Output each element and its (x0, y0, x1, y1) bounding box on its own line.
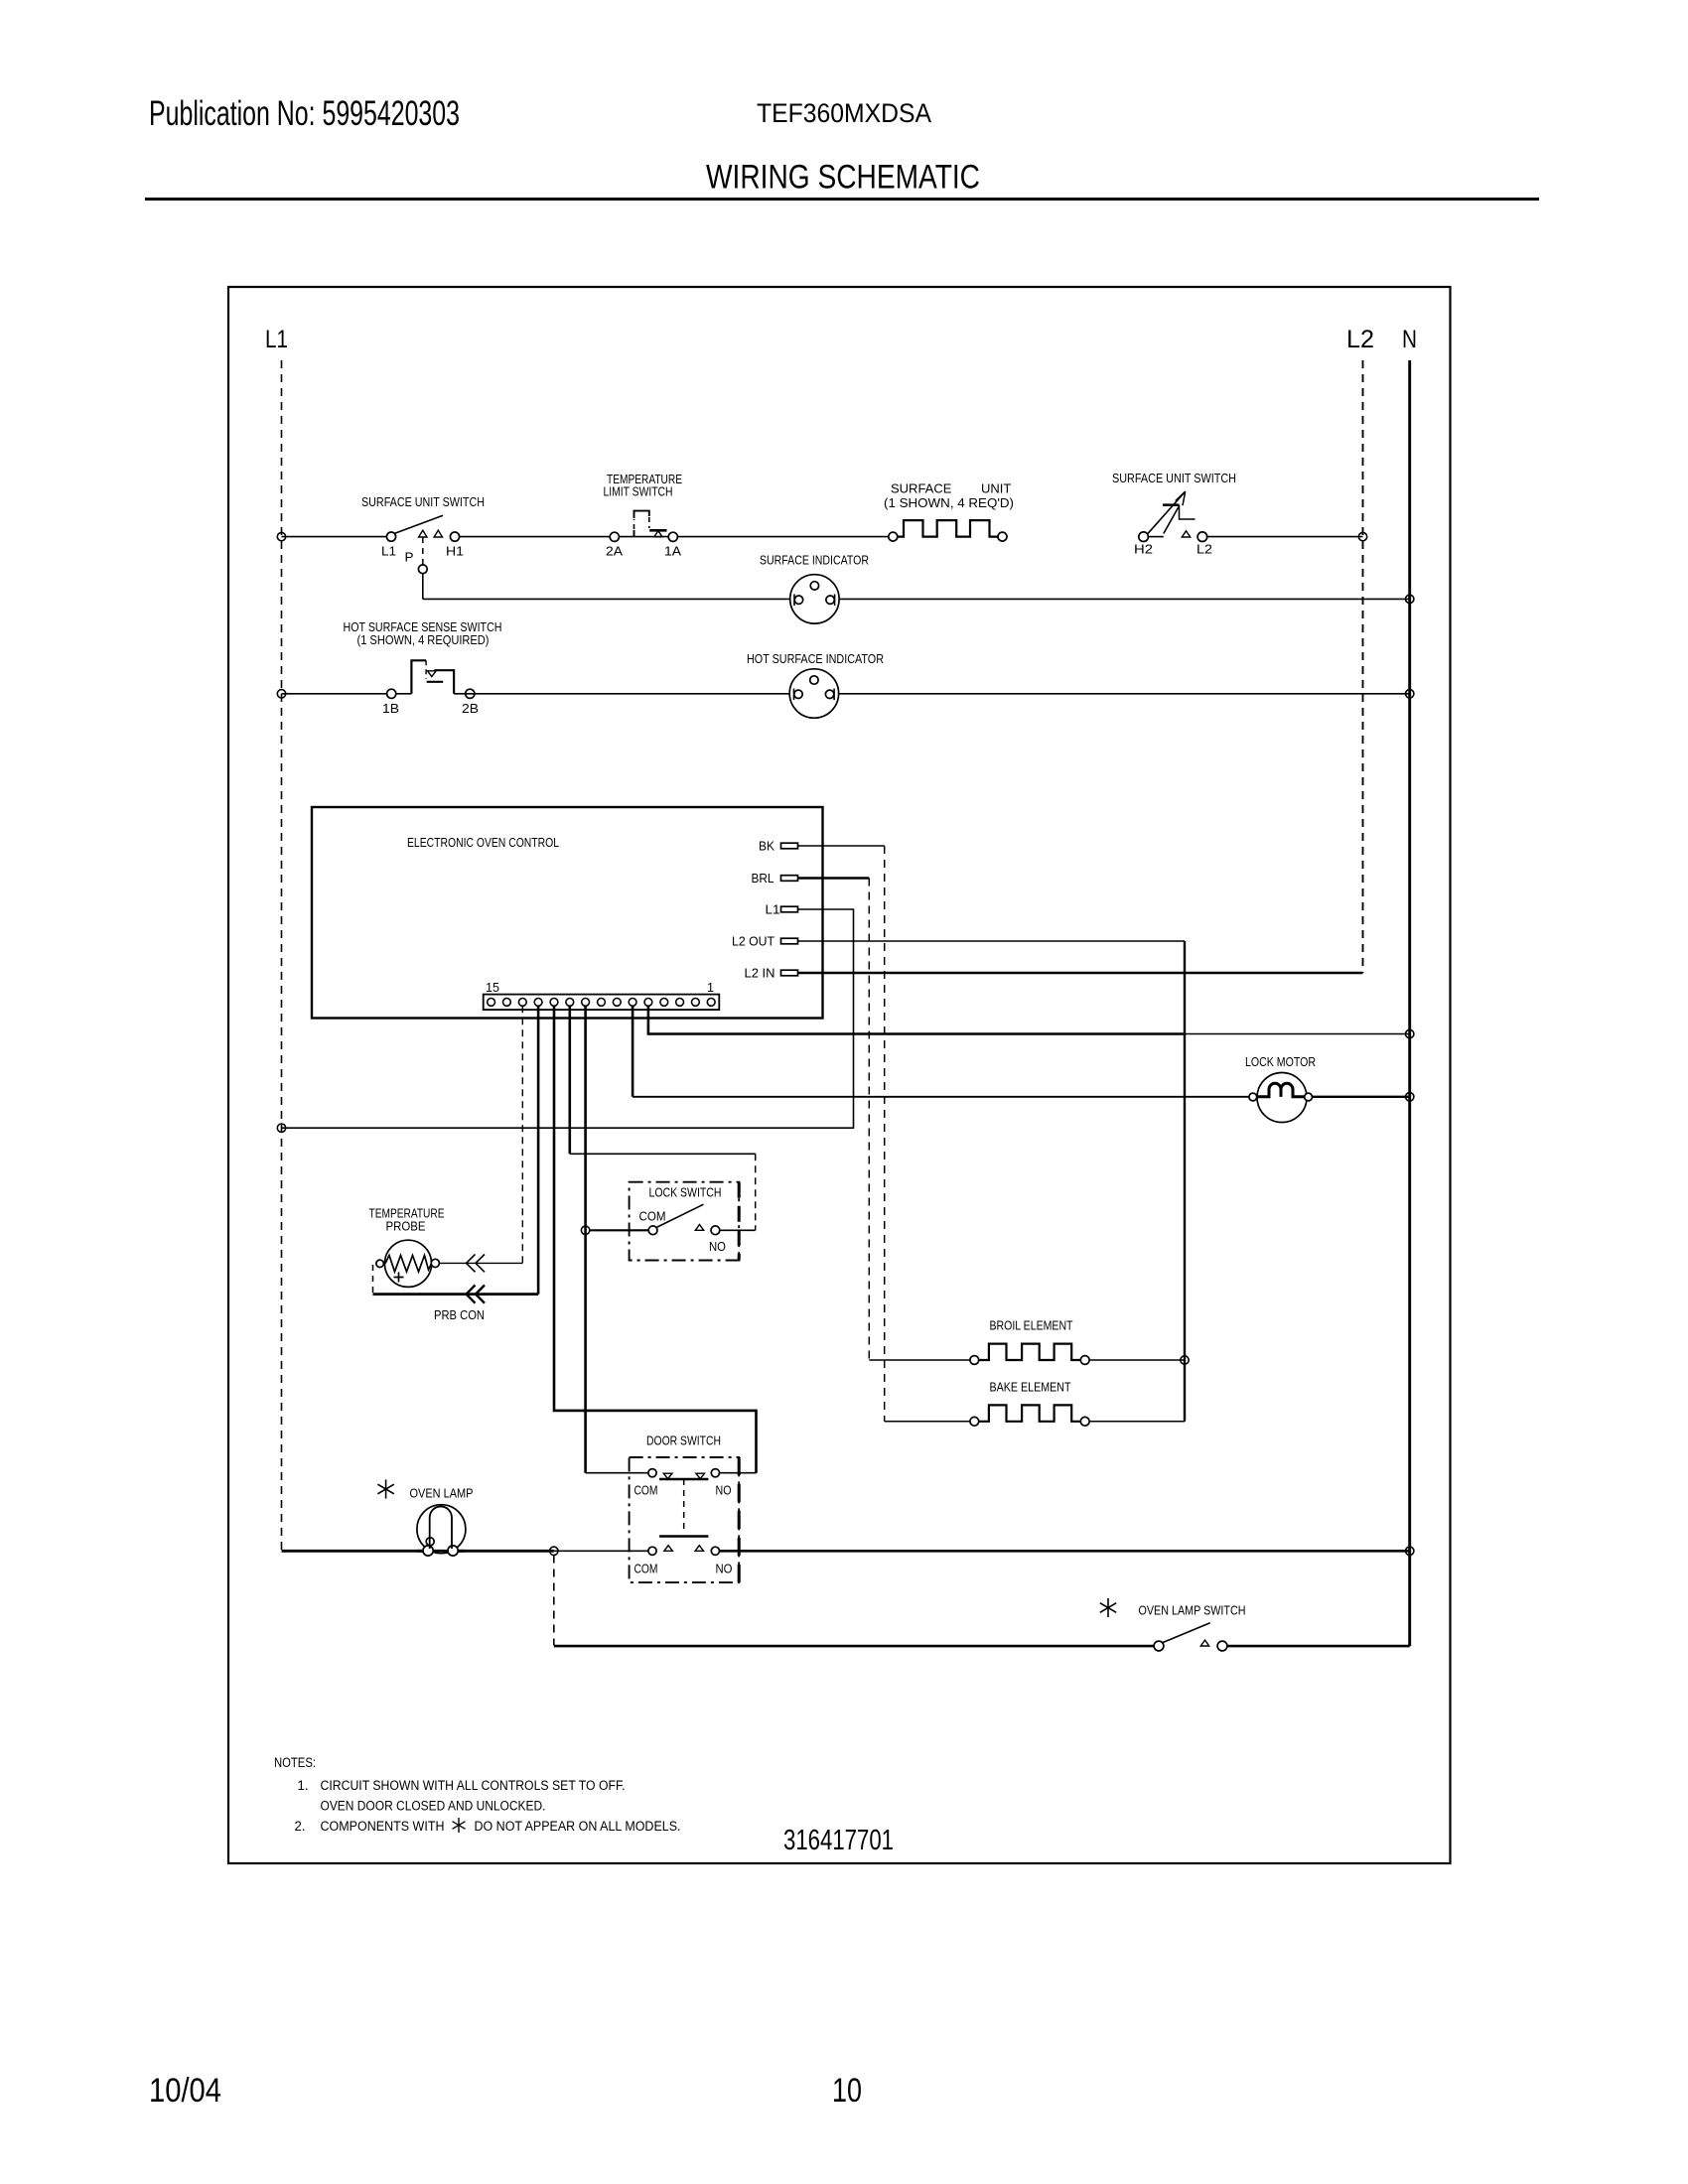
door switch S5 upper COM terminal (648, 1469, 656, 1477)
svg-text:1A: 1A (664, 544, 681, 559)
wire row2 left segment (282, 693, 412, 695)
wire terminal 6 (568, 1006, 571, 1154)
PRB CON chevrons (467, 1286, 486, 1303)
lock motor M1 terminals (1249, 1093, 1257, 1101)
oven lamp DS3 body (417, 1505, 466, 1554)
wire door upper row right (720, 1472, 757, 1474)
wire P to indicator row (422, 574, 424, 600)
svg-text:OVEN DOOR CLOSED AND UNLOCKED.: OVEN DOOR CLOSED AND UNLOCKED. (321, 1799, 546, 1814)
oven lamp DS3 filament (430, 1506, 452, 1549)
broil element R2 right terminal (1080, 1356, 1089, 1365)
schematic border frame (228, 287, 1451, 1863)
limit switch TL1 contact bar (649, 529, 666, 532)
resistor R3 element (979, 1405, 1081, 1421)
wire terminal 11 (648, 1006, 1185, 1033)
door switch S5 upper NO terminal (711, 1469, 719, 1477)
svg-text:L2: L2 (1196, 542, 1212, 557)
svg-text:1B: 1B (382, 701, 399, 716)
svg-text:L2: L2 (1346, 326, 1374, 353)
bake element R3 right terminal (1080, 1417, 1089, 1426)
svg-text:Publication No: 5995420303: Publication No: 5995420303 (149, 94, 460, 133)
wire broil row right (1089, 1359, 1185, 1361)
wire terminal 5 (554, 1006, 757, 1472)
door switch S5 upper bar (659, 1478, 708, 1480)
svg-text:DOOR SWITCH: DOOR SWITCH (646, 1433, 721, 1448)
svg-text:COM: COM (634, 1562, 658, 1576)
door switch S5 lower NO terminal (711, 1547, 719, 1555)
wire row 1041 right (1185, 1033, 1410, 1035)
svg-text:H1: H1 (446, 544, 464, 559)
svg-text:BK: BK (759, 839, 774, 854)
wire lamp row to door COM (554, 1550, 648, 1552)
svg-text:TEF360MXDSA: TEF360MXDSA (757, 98, 931, 128)
svg-text:NO: NO (716, 1562, 733, 1576)
wire door upper row left (586, 1472, 648, 1474)
svg-text:ELECTRONIC OVEN CONTROL: ELECTRONIC OVEN CONTROL (407, 835, 559, 850)
svg-text:L1: L1 (766, 902, 780, 917)
wire row1 left segment (282, 536, 388, 538)
junction row2 x N rail (1406, 690, 1414, 698)
svg-text:BRL: BRL (752, 871, 774, 886)
wire row1 right segment (1207, 536, 1363, 538)
switch S2 L bracket (1180, 505, 1196, 519)
wire broil row left (869, 1359, 970, 1361)
wire lamp row thick left (282, 1550, 554, 1553)
oven lamp switch asterisk (1100, 1598, 1116, 1617)
terminal strip J1 (484, 995, 720, 1011)
wire pin L2 IN (798, 972, 1363, 975)
svg-text:SURFACE INDICATOR: SURFACE INDICATOR (760, 553, 869, 568)
door switch S5 lower bar (659, 1535, 708, 1537)
wire N rail (1408, 360, 1411, 1646)
junction row2 x L1 rail (277, 690, 285, 698)
surface indicator DS1 body (790, 575, 839, 623)
oven lamp switch S6 blade (1163, 1623, 1210, 1643)
lock switch S4 contact triangle (695, 1225, 703, 1231)
surface unit R1 right terminal (998, 532, 1007, 541)
wire probe to terminal3 (439, 1262, 522, 1264)
door switch S5 upper contact triangles (663, 1473, 672, 1478)
lock motor M1 body (1257, 1073, 1307, 1123)
svg-text:1.: 1. (298, 1778, 309, 1793)
lock switch S4 blade (656, 1204, 704, 1227)
svg-text:DO NOT APPEAR ON ALL MODELS.: DO NOT APPEAR ON ALL MODELS. (475, 1819, 681, 1834)
svg-text:LIMIT SWITCH: LIMIT SWITCH (604, 484, 673, 499)
wire terminal 10 (632, 1006, 634, 1097)
svg-text:SURFACE UNIT: SURFACE UNIT (891, 481, 1011, 496)
wire lamp switch row right (1227, 1645, 1410, 1648)
oven lamp asterisk (377, 1480, 393, 1499)
junction motor row x N rail (1406, 1093, 1414, 1101)
svg-text:N: N (1402, 326, 1417, 353)
oven lamp switch S6 left terminal (1154, 1641, 1164, 1651)
svg-text:OVEN LAMP: OVEN LAMP (410, 1486, 474, 1501)
switch S2 bar (1163, 503, 1180, 506)
svg-text:PRB CON: PRB CON (434, 1307, 485, 1322)
svg-text:L2 IN: L2 IN (745, 966, 775, 981)
junction row1 x L2 rail (1358, 532, 1366, 540)
switch S1 blade (394, 515, 443, 533)
svg-text:NO: NO (709, 1239, 726, 1254)
probe connector chevrons (467, 1255, 486, 1273)
wire bake row right (1089, 1421, 1185, 1423)
wire probe left dashed drop (372, 1265, 374, 1295)
wire pin L2 OUT (798, 940, 1186, 942)
limit switch TL1 body (634, 511, 649, 537)
svg-text:(1 SHOWN, 4 REQ'D): (1 SHOWN, 4 REQ'D) (884, 495, 1014, 510)
svg-text:PROBE: PROBE (386, 1219, 426, 1234)
resistor R1 element (898, 520, 998, 537)
junction L1 pin wire x L1 rail (277, 1124, 285, 1132)
limit switch TL1 contact triangle (654, 531, 662, 537)
bake element R3 left terminal (970, 1417, 979, 1426)
svg-text:SURFACE UNIT SWITCH: SURFACE UNIT SWITCH (361, 494, 485, 509)
svg-text:LOCK SWITCH: LOCK SWITCH (649, 1185, 722, 1200)
svg-text:NO: NO (716, 1483, 732, 1498)
switch S1 terminal H1 (450, 532, 459, 541)
wire lamp switch dashed drop (553, 1556, 555, 1646)
switch S2 blade with arrow (1148, 491, 1186, 534)
oven lamp DS3 terminals (426, 1538, 434, 1546)
svg-text:10: 10 (832, 2072, 862, 2110)
lock switch S4 box (630, 1182, 740, 1261)
wire pin L1 (282, 909, 854, 1128)
wire terminal 3 (dashed) (521, 1006, 523, 1263)
junction indicator row x N rail (1406, 595, 1414, 603)
broil element R2 left terminal (970, 1356, 979, 1365)
junction row1 x L1 rail (277, 532, 285, 540)
svg-text:316417701: 316417701 (783, 1825, 894, 1856)
svg-text:15: 15 (486, 980, 499, 995)
wire lock motor row (633, 1096, 1250, 1098)
door switch S5 lower COM terminal (648, 1547, 656, 1555)
sense switch S3 terminal 1B (387, 689, 396, 698)
svg-text:BROIL ELEMENT: BROIL ELEMENT (990, 1318, 1073, 1333)
svg-text:OVEN LAMP SWITCH: OVEN LAMP SWITCH (1139, 1603, 1246, 1618)
switch S1 terminal L1 (386, 532, 395, 541)
wire L1 rail (dashed) (281, 360, 283, 1551)
junction broil row x L2OUT wire (1181, 1356, 1189, 1364)
terminal strip J1 pins (488, 999, 715, 1007)
svg-text:1: 1 (707, 980, 714, 995)
switch S1 contact triangle P (419, 530, 427, 537)
title rule (145, 198, 1539, 201)
switch S2 terminal L2 (1197, 532, 1207, 542)
switch S2 contact triangle (1182, 531, 1190, 537)
wire pin BK (798, 845, 885, 847)
oven lamp switch S6 contact triangle (1200, 1640, 1208, 1646)
sense switch S3 body (411, 660, 426, 694)
lock switch S4 NO terminal (711, 1226, 720, 1235)
svg-text:LOCK MOTOR: LOCK MOTOR (1245, 1054, 1316, 1069)
lock switch S4 COM terminal (648, 1226, 657, 1235)
switch S1 contact triangle H1 (434, 530, 442, 537)
limit switch TL1 terminal 2A (610, 532, 619, 541)
door switch S5 plunger (683, 1479, 685, 1534)
limit switch TL1 terminal 1A (668, 532, 677, 541)
svg-text:COMPONENTS WITH: COMPONENTS WITH (321, 1819, 445, 1834)
svg-text:L2 OUT: L2 OUT (732, 934, 774, 949)
resistor R2 element (979, 1344, 1081, 1360)
svg-text:HOT SURFACE INDICATOR: HOT SURFACE INDICATOR (747, 651, 884, 666)
temperature probe RT1 terminals (376, 1260, 383, 1267)
svg-text:COM: COM (639, 1209, 666, 1224)
hot surface indicator DS2 body (789, 669, 838, 718)
svg-text:P: P (405, 550, 414, 565)
door switch S5 lower contact triangles (664, 1546, 672, 1552)
sense switch S3 terminal 2B (466, 689, 475, 698)
svg-text:2B: 2B (462, 701, 479, 716)
svg-text:2A: 2A (606, 544, 623, 559)
node P terminal (418, 565, 427, 574)
svg-text:COM: COM (634, 1483, 658, 1498)
svg-text:WIRING SCHEMATIC: WIRING SCHEMATIC (706, 159, 980, 197)
surface unit R1 left terminal (889, 532, 898, 541)
switch S2 second blade (1164, 507, 1179, 534)
junction row1041 x N rail (1406, 1029, 1414, 1037)
door switch S5 box (630, 1457, 740, 1582)
wire terminal 7 (584, 1006, 587, 1472)
wire PRB CON row (373, 1293, 539, 1296)
svg-text:NOTES:: NOTES: (274, 1755, 316, 1770)
wire indicator row (423, 598, 1410, 600)
wire pin BRL (798, 877, 870, 880)
svg-text:10/04: 10/04 (149, 2072, 221, 2110)
svg-text:H2: H2 (1134, 542, 1153, 557)
svg-text:L1: L1 (381, 544, 396, 559)
wire row1 middle segment (460, 536, 889, 538)
oven lamp switch S6 right terminal (1217, 1641, 1227, 1651)
wire row2 right segment (454, 693, 1410, 695)
svg-text:L1: L1 (265, 326, 288, 353)
temperature probe RT1 body (384, 1240, 431, 1287)
wire lock NO right (720, 1229, 756, 1231)
svg-text:CIRCUIT SHOWN WITH ALL CONTROL: CIRCUIT SHOWN WITH ALL CONTROLS SET TO O… (321, 1778, 626, 1793)
svg-text:SURFACE UNIT SWITCH: SURFACE UNIT SWITCH (1112, 471, 1236, 485)
wire lamp row right to N (720, 1550, 1410, 1553)
svg-text:2.: 2. (295, 1819, 306, 1834)
wire H2 stub (1148, 536, 1164, 538)
electronic oven control U1 box (312, 807, 823, 1019)
junction lamp row x N rail (1406, 1547, 1414, 1555)
wire P dashed drop (422, 537, 424, 565)
wire L2 rail (dashed) (1362, 360, 1364, 973)
wire lock row left (590, 1229, 649, 1231)
svg-text:BAKE ELEMENT: BAKE ELEMENT (990, 1380, 1071, 1395)
junction lamp row x lamp switch drop (550, 1547, 558, 1555)
wire lamp switch row left (554, 1645, 1155, 1648)
wire bake row left (885, 1421, 970, 1423)
junction lock row x terminal7 wire (581, 1226, 589, 1234)
wire terminal 4 (537, 1006, 540, 1294)
svg-text:(1 SHOWN, 4 REQUIRED): (1 SHOWN, 4 REQUIRED) (357, 632, 490, 647)
switch S2 terminal H2 (1139, 532, 1149, 542)
